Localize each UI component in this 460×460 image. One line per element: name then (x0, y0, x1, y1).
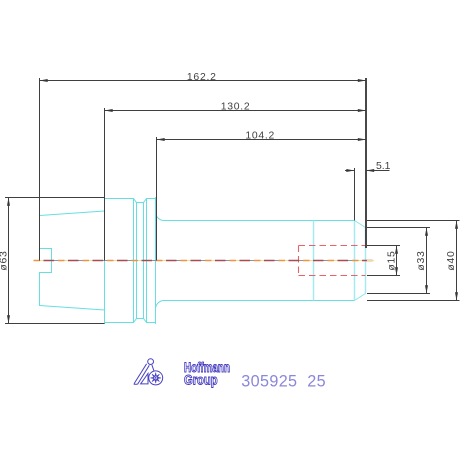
centerline base (yellow) (34, 260, 375, 262)
taper top line (40, 211, 105, 216)
logo gear hub dot (155, 377, 157, 379)
dia15 bottom extension line (367, 275, 400, 277)
flange right face (155, 198, 157, 324)
svg-text:162.2: 162.2 (187, 72, 217, 83)
extension line chamfer start (5.1 left) (354, 168, 356, 221)
fillet bottom flange-to-body (156, 301, 165, 310)
dimension line 5.1 right tail (366, 170, 390, 172)
dia15 top extension line (367, 245, 400, 247)
dimension lines and extension lines (dark gray) (5, 78, 460, 324)
flange top outline with V-groove (105, 199, 156, 203)
arrow dia40 bottom (455, 292, 458, 300)
svg-text:ø40: ø40 (446, 250, 457, 270)
dia15 dimension line (396, 246, 398, 276)
logo small triangle (141, 374, 148, 384)
chamfer start edge line (354, 221, 356, 301)
body edge line at section transition (313, 221, 315, 301)
arrow 104.2 right (358, 138, 366, 141)
part number text 305925 25 (241, 372, 326, 390)
bore bottom hidden line (299, 275, 366, 277)
chamfer top at right end (355, 221, 366, 228)
flange bottom outline with V-groove (105, 319, 156, 323)
svg-text:ø15: ø15 (387, 250, 398, 270)
centerline orange dashes (34, 260, 375, 262)
logo gear petals (150, 373, 161, 384)
body bottom line (164, 300, 355, 302)
Hoffmann Group logo text (184, 361, 230, 388)
centerline dark red dashes (34, 260, 375, 262)
dia33 bottom extension line (367, 293, 430, 295)
bore back edge hidden line (298, 246, 300, 276)
right end face (365, 228, 367, 294)
svg-text:ø63: ø63 (0, 250, 10, 270)
arrow 130.2 right (358, 109, 366, 112)
dia40 dimension line (456, 221, 458, 301)
Hoffmann Group logo mark (134, 359, 163, 385)
dia63 top extension line (5, 197, 105, 199)
dimension line 5.1 left tail (345, 170, 355, 172)
fillet top flange-to-body (156, 212, 165, 221)
dia40 top extension line (367, 220, 460, 222)
arrow dia15 top (395, 246, 398, 254)
notch in left face (40, 249, 52, 273)
flange groove edge line 2 (136, 203, 138, 319)
bore top hidden line (299, 245, 366, 247)
arrowheads (7, 79, 458, 324)
pale cyan edge lines (314, 221, 366, 301)
arrow 130.2 left (105, 109, 113, 112)
logo wheel circle (149, 371, 163, 385)
svg-text:104.2: 104.2 (245, 130, 275, 141)
flange groove edge line 4 (146, 199, 148, 323)
svg-text:305925: 305925 (241, 372, 297, 390)
arrow dia63 top (7, 198, 10, 206)
dimension line 130.2 (105, 110, 367, 112)
extension line flange right (104.2) (156, 137, 158, 261)
arrow 162.2 right (358, 79, 366, 82)
chamfer bottom at right end (355, 294, 366, 301)
hidden bore lines (red dashed) (299, 246, 366, 276)
dimension line 162.2 (40, 80, 367, 82)
svg-text:25: 25 (307, 372, 326, 390)
dimension texts (0, 72, 457, 271)
dimension line 104.2 (157, 139, 367, 141)
arrow 104.2 left (157, 138, 165, 141)
svg-text:5.1: 5.1 (376, 161, 391, 172)
centerline yellow tail at right end (367, 260, 374, 262)
dia63 dimension line (8, 198, 10, 324)
arrow 5.1 left (346, 169, 354, 172)
arrow dia15 bottom (395, 267, 398, 275)
svg-text:Group: Group (184, 372, 218, 387)
logo body outer diagonal (134, 364, 146, 384)
arrow dia33 bottom (425, 285, 428, 293)
part outline group (cyan) (40, 198, 366, 324)
arrow 162.2 left (40, 79, 48, 82)
centerline gray ticks (34, 260, 375, 262)
dia33 dimension line (426, 228, 428, 294)
left face of taper shank (39, 216, 41, 306)
arrow 5.1 right (366, 169, 374, 172)
arrow dia33 top (425, 228, 428, 236)
logo body inner diagonal (138, 365, 150, 384)
taper bottom line (40, 306, 105, 311)
shared right extension line (365, 78, 367, 248)
flange groove edge line 1 (133, 199, 135, 323)
logo arm to wheel (152, 365, 154, 371)
body top line (164, 220, 355, 222)
dia40 bottom extension line (367, 300, 460, 302)
svg-text:130.2: 130.2 (221, 102, 251, 113)
dia33 top extension line (367, 227, 430, 229)
extension line left (162.2) over part left face (39, 78, 41, 261)
logo head circle (148, 359, 154, 365)
svg-text:ø33: ø33 (416, 250, 427, 270)
arrow dia40 top (455, 221, 458, 229)
arrow dia63 bottom (7, 315, 10, 323)
extension line flange left (130.2) (104, 108, 106, 261)
flange left face (104, 198, 106, 324)
logo body foot (134, 383, 137, 386)
flange groove edge line 3 (143, 203, 145, 319)
dia63 bottom extension line (5, 323, 105, 325)
